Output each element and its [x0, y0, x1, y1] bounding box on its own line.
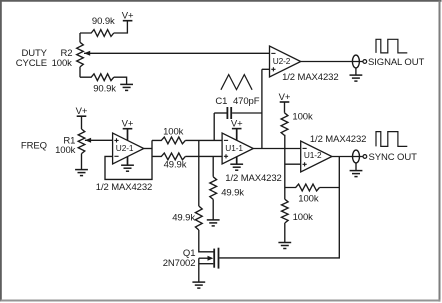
wire integrator summing node down / resistor 49.9k to Q1 drain — [195, 140, 214, 251]
wire U1-2 output to Q1 gate — [219, 157, 339, 258]
ground R2 bottom — [120, 83, 133, 85]
svg-text:90.9k: 90.9k — [92, 16, 115, 27]
SIGNAL OUT connector — [352, 55, 359, 68]
svg-text:100k: 100k — [293, 212, 314, 223]
svg-text:49.9k: 49.9k — [172, 213, 195, 224]
wire U1-2 output to SYNC OUT — [332, 156, 363, 158]
svg-text:U1-2: U1-2 — [304, 150, 322, 160]
ground U1-1 supply — [230, 163, 243, 165]
wire C1 left lead — [214, 112, 226, 114]
op-amp U2-2 — [270, 46, 301, 77]
transistor Q1 2N7002 — [213, 249, 215, 268]
svg-text:V+: V+ — [279, 92, 291, 103]
ground Q1 source — [192, 281, 205, 283]
svg-text:CYCLE: CYCLE — [16, 58, 47, 69]
resistor 90.9k bottom — [80, 74, 127, 85]
wire V+ stub U1-1 — [236, 129, 238, 142]
svg-text:470pF: 470pF — [233, 96, 260, 107]
wire ground stub U2-1 — [127, 156, 129, 165]
wire connector ground stub — [355, 68, 357, 75]
wire V+ stub U2-1 — [127, 129, 129, 142]
op-amp U1-1 — [222, 133, 253, 164]
op-amp U1-2 — [301, 141, 332, 172]
resistor 49.9k U1-1 non-inverting to ground — [210, 156, 217, 220]
svg-text:1/2 MAX4232: 1/2 MAX4232 — [310, 134, 366, 145]
wire C1 right lead — [232, 112, 262, 114]
svg-text:SIGNAL OUT: SIGNAL OUT — [368, 57, 424, 68]
ground SYNC OUT connector — [350, 170, 363, 172]
resistor 100k to ground (hysteresis divider) — [282, 199, 289, 242]
wire SYNC connector ground stub — [355, 163, 357, 171]
svg-text:100k: 100k — [55, 145, 76, 156]
svg-text:U2-1: U2-1 — [116, 143, 134, 153]
wire C1 to U1-1 inverting input — [213, 113, 215, 140]
V+ supply U2-1 — [123, 128, 133, 130]
resistor 100k feedback — [285, 184, 340, 191]
svg-text:1/2 MAX4232: 1/2 MAX4232 — [96, 182, 152, 193]
wire R2 wiper to U2-2 inverting input — [84, 52, 270, 54]
resistor 90.9k top — [80, 21, 127, 37]
ground 49.9k divider — [207, 219, 220, 221]
svg-text:V+: V+ — [122, 119, 134, 130]
wire U2-2 output to SIGNAL OUT — [301, 61, 363, 63]
frame border — [0, 0, 442, 2]
wire U1-1 output to U1-2 inverting input — [253, 148, 300, 150]
svg-text:FREQ: FREQ — [21, 141, 47, 152]
svg-text:49.9k: 49.9k — [164, 159, 187, 170]
svg-text:V+: V+ — [231, 119, 243, 130]
svg-text:U2-2: U2-2 — [273, 56, 291, 66]
ground hysteresis divider — [278, 242, 291, 244]
wire R1 wiper to U2-1 non-inverting input — [85, 139, 113, 141]
V+ terminal R2 top — [123, 20, 133, 22]
svg-text:SYNC OUT: SYNC OUT — [369, 152, 418, 163]
wire U2-1 output — [144, 148, 152, 150]
triangle waveform glyph — [221, 75, 252, 90]
resistor 100k pullup from V+ — [281, 102, 288, 199]
SYNC OUT connector — [353, 150, 360, 163]
svg-text:U1-1: U1-1 — [225, 143, 243, 153]
svg-text:1/2 MAX4232: 1/2 MAX4232 — [282, 72, 338, 83]
V+ terminal 100k pullup — [280, 101, 290, 103]
svg-text:1/2 MAX4232: 1/2 MAX4232 — [225, 173, 281, 184]
R2 wiper arrow — [84, 51, 90, 56]
ground R1 bottom — [75, 169, 88, 171]
wire ground stub U1-1 — [236, 156, 238, 164]
V+ terminal R1 — [77, 115, 87, 117]
svg-text:49.9k: 49.9k — [221, 188, 244, 199]
square waveform glyph SYNC — [376, 132, 407, 147]
wire triangle node up to U2-2 non-inverting input — [261, 69, 263, 148]
svg-text:2N7002: 2N7002 — [163, 258, 196, 269]
square waveform glyph SIGNAL — [376, 39, 407, 53]
svg-text:100k: 100k — [298, 194, 319, 205]
ground SIGNAL OUT connector — [350, 74, 363, 76]
V+ supply U1-1 — [232, 128, 242, 130]
svg-text:100k: 100k — [52, 58, 73, 69]
R1 wiper arrow — [85, 138, 91, 143]
wire U2-1 feedback loop — [105, 140, 152, 179]
svg-text:V+: V+ — [122, 11, 134, 22]
wire U2-2 non-inverting input — [262, 68, 270, 70]
capacitor C1 470pF — [226, 107, 228, 119]
op-amp U2-1 — [113, 133, 144, 164]
svg-text:100k: 100k — [292, 111, 313, 122]
resistor 49.9k to U1-1 non-inverting — [152, 153, 222, 160]
ground U2-1 supply — [121, 164, 134, 166]
resistor 100k integrator input — [152, 137, 222, 144]
svg-text:90.9k: 90.9k — [93, 84, 116, 95]
potentiometer R1 — [78, 116, 85, 169]
svg-text:100k: 100k — [163, 127, 184, 138]
potentiometer R2 — [77, 33, 84, 77]
svg-text:C1: C1 — [215, 96, 227, 107]
svg-text:V+: V+ — [76, 106, 88, 117]
wire to U1-2 non-inverting input — [285, 163, 301, 165]
